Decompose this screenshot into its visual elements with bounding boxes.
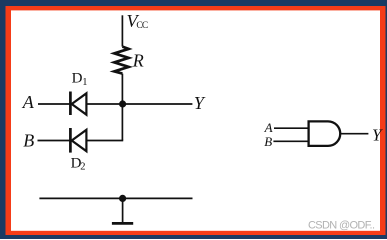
junction dot at node Y xyxy=(119,100,126,107)
svg-text:2: 2 xyxy=(80,162,85,173)
wire AND gate input A xyxy=(274,127,308,129)
wire D1 anode to output Y xyxy=(87,103,193,105)
svg-text:B: B xyxy=(264,134,272,149)
diode D1 cathode bar xyxy=(69,92,72,116)
svg-text:1: 1 xyxy=(82,77,87,88)
ground stem xyxy=(122,198,124,222)
svg-text:CC: CC xyxy=(136,21,148,31)
bottom ground rail wire xyxy=(39,197,192,199)
svg-text:Y: Y xyxy=(372,125,383,144)
svg-text:CSDN @ODF..: CSDN @ODF.. xyxy=(308,219,375,231)
wire resistor bottom to node Y junction down to D2 corner xyxy=(121,74,123,141)
wire input B to diode D2 cathode xyxy=(38,140,70,142)
wire D2 anode to corner at node xyxy=(87,140,124,142)
svg-text:R: R xyxy=(132,51,144,71)
resistor R xyxy=(114,47,128,74)
junction dot on ground rail xyxy=(119,195,126,202)
wire AND gate input B xyxy=(273,140,308,142)
wire AND gate output Y xyxy=(340,133,368,135)
svg-text:A: A xyxy=(264,120,273,135)
svg-text:A: A xyxy=(22,92,35,112)
svg-text:D: D xyxy=(72,71,83,87)
diode D2 triangle xyxy=(72,130,87,151)
diode D1 triangle xyxy=(72,93,87,114)
AND gate U1 body xyxy=(309,121,341,145)
ground bar xyxy=(112,222,133,225)
wire Vcc vertical to resistor top xyxy=(121,15,123,46)
diode D2 cathode bar xyxy=(69,128,72,153)
wire input A to diode D1 cathode xyxy=(38,103,70,105)
svg-text:B: B xyxy=(23,131,34,151)
